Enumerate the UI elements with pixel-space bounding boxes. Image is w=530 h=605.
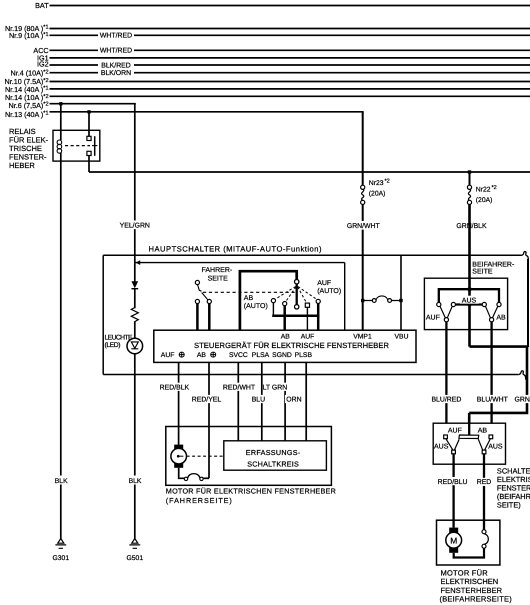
svg-text:Nr23: Nr23 xyxy=(369,180,384,187)
svg-text:FENSTERHEBER: FENSTERHEBER xyxy=(441,586,503,595)
svg-text:BLK: BLK xyxy=(55,478,68,485)
svg-text:AUS: AUS xyxy=(488,444,503,451)
svg-text:LEUCHTE: LEUCHTE xyxy=(105,335,133,342)
svg-text:VMP1: VMP1 xyxy=(353,333,372,340)
svg-text:WHT/RED: WHT/RED xyxy=(100,33,132,40)
svg-text:AUF: AUF xyxy=(317,280,331,287)
svg-text:FAHRER-: FAHRER- xyxy=(202,267,233,274)
svg-text:LT GRN: LT GRN xyxy=(263,384,288,391)
svg-text:HEBER: HEBER xyxy=(9,161,35,170)
svg-text:Nr.13 (40A )*1: Nr.13 (40A )*1 xyxy=(5,110,49,119)
svg-text:GRN/BLK: GRN/BLK xyxy=(515,397,530,404)
svg-text:GRN/BLK: GRN/BLK xyxy=(456,223,487,230)
svg-text:AB: AB xyxy=(496,315,506,322)
svg-text:MOTOR FÜR ELEKTRISCHEN FENSTER: MOTOR FÜR ELEKTRISCHEN FENSTERHEBER xyxy=(166,486,336,495)
svg-text:AUS: AUS xyxy=(434,444,449,451)
svg-text:(LED): (LED) xyxy=(105,342,121,349)
svg-text:AUS: AUS xyxy=(462,297,477,304)
svg-text:BLU/WHT: BLU/WHT xyxy=(477,397,509,404)
svg-text:BEIFAHRER-: BEIFAHRER- xyxy=(472,262,515,269)
svg-text:(AUTO): (AUTO) xyxy=(244,302,268,310)
svg-text:AUF: AUF xyxy=(426,315,440,322)
svg-text:Nr.6 (7,5A)*2: Nr.6 (7,5A)*2 xyxy=(9,101,49,110)
svg-text:SGND: SGND xyxy=(272,352,292,359)
svg-text:SCHALTKREIS: SCHALTKREIS xyxy=(247,459,299,468)
svg-text:AUF: AUF xyxy=(161,352,175,359)
svg-text:SEITE: SEITE xyxy=(208,275,229,282)
svg-text:AUF: AUF xyxy=(301,333,315,340)
svg-text:(BEIFAHRERSEITE): (BEIFAHRERSEITE) xyxy=(440,595,513,604)
svg-text:(20A): (20A) xyxy=(476,197,493,204)
svg-text:RED/WHT: RED/WHT xyxy=(223,384,256,391)
svg-text:STEUERGERÄT FÜR ELEKTRISCHE FE: STEUERGERÄT FÜR ELEKTRISCHE FENSTERHEBER xyxy=(194,341,390,350)
svg-text:G301: G301 xyxy=(52,555,69,562)
svg-text:RED: RED xyxy=(477,479,492,486)
svg-text:SVCC: SVCC xyxy=(229,352,248,359)
svg-text:SEITE: SEITE xyxy=(472,269,493,276)
svg-text:WHT/RED: WHT/RED xyxy=(100,48,132,55)
svg-text:YEL/GRN: YEL/GRN xyxy=(120,222,150,229)
svg-text:AB: AB xyxy=(244,295,254,302)
svg-text:(FAHRERSEITE): (FAHRERSEITE) xyxy=(166,496,232,505)
svg-text:HAUPTSCHALTER (MITAUF-AUTO-Fun: HAUPTSCHALTER (MITAUF-AUTO-Funktion) xyxy=(149,245,322,254)
svg-text:PLSB: PLSB xyxy=(295,352,313,359)
svg-text:M: M xyxy=(450,535,457,545)
svg-text:Nr22: Nr22 xyxy=(476,187,491,194)
svg-text:IG2: IG2 xyxy=(37,60,49,69)
svg-text:(20A): (20A) xyxy=(369,190,386,197)
svg-text:SEITE): SEITE) xyxy=(497,501,521,510)
svg-text:AB: AB xyxy=(281,333,291,340)
svg-text:*2: *2 xyxy=(385,179,390,185)
svg-text:BLU/RED: BLU/RED xyxy=(431,397,461,404)
svg-text:RED/BLU: RED/BLU xyxy=(438,479,468,486)
svg-text:BLK/RED: BLK/RED xyxy=(101,62,131,69)
svg-text:ELEKTRISCHEN: ELEKTRISCHEN xyxy=(441,577,499,586)
svg-text:BLK: BLK xyxy=(129,478,142,485)
svg-text:BLU: BLU xyxy=(252,397,265,404)
svg-text:*2: *2 xyxy=(492,185,497,191)
svg-text:(AUTO): (AUTO) xyxy=(317,287,341,295)
svg-text:ORN: ORN xyxy=(286,397,301,404)
svg-text:AB: AB xyxy=(197,352,207,359)
svg-text:BAT: BAT xyxy=(35,1,49,10)
svg-text:PLSA: PLSA xyxy=(252,352,270,359)
svg-text:RED/YEL: RED/YEL xyxy=(192,397,222,404)
svg-text:VBU: VBU xyxy=(395,333,409,340)
svg-text:BLK/ORN: BLK/ORN xyxy=(101,70,131,77)
svg-text:AB: AB xyxy=(478,427,488,434)
svg-text:Nr.9 (10A )*1: Nr.9 (10A )*1 xyxy=(9,31,49,40)
svg-text:GRN/WHT: GRN/WHT xyxy=(347,223,381,230)
svg-text:G501: G501 xyxy=(126,555,143,562)
svg-text:ERFASSUNGS-: ERFASSUNGS- xyxy=(246,448,301,457)
svg-text:AUF: AUF xyxy=(448,427,462,434)
svg-text:RED/BLK: RED/BLK xyxy=(160,384,190,391)
